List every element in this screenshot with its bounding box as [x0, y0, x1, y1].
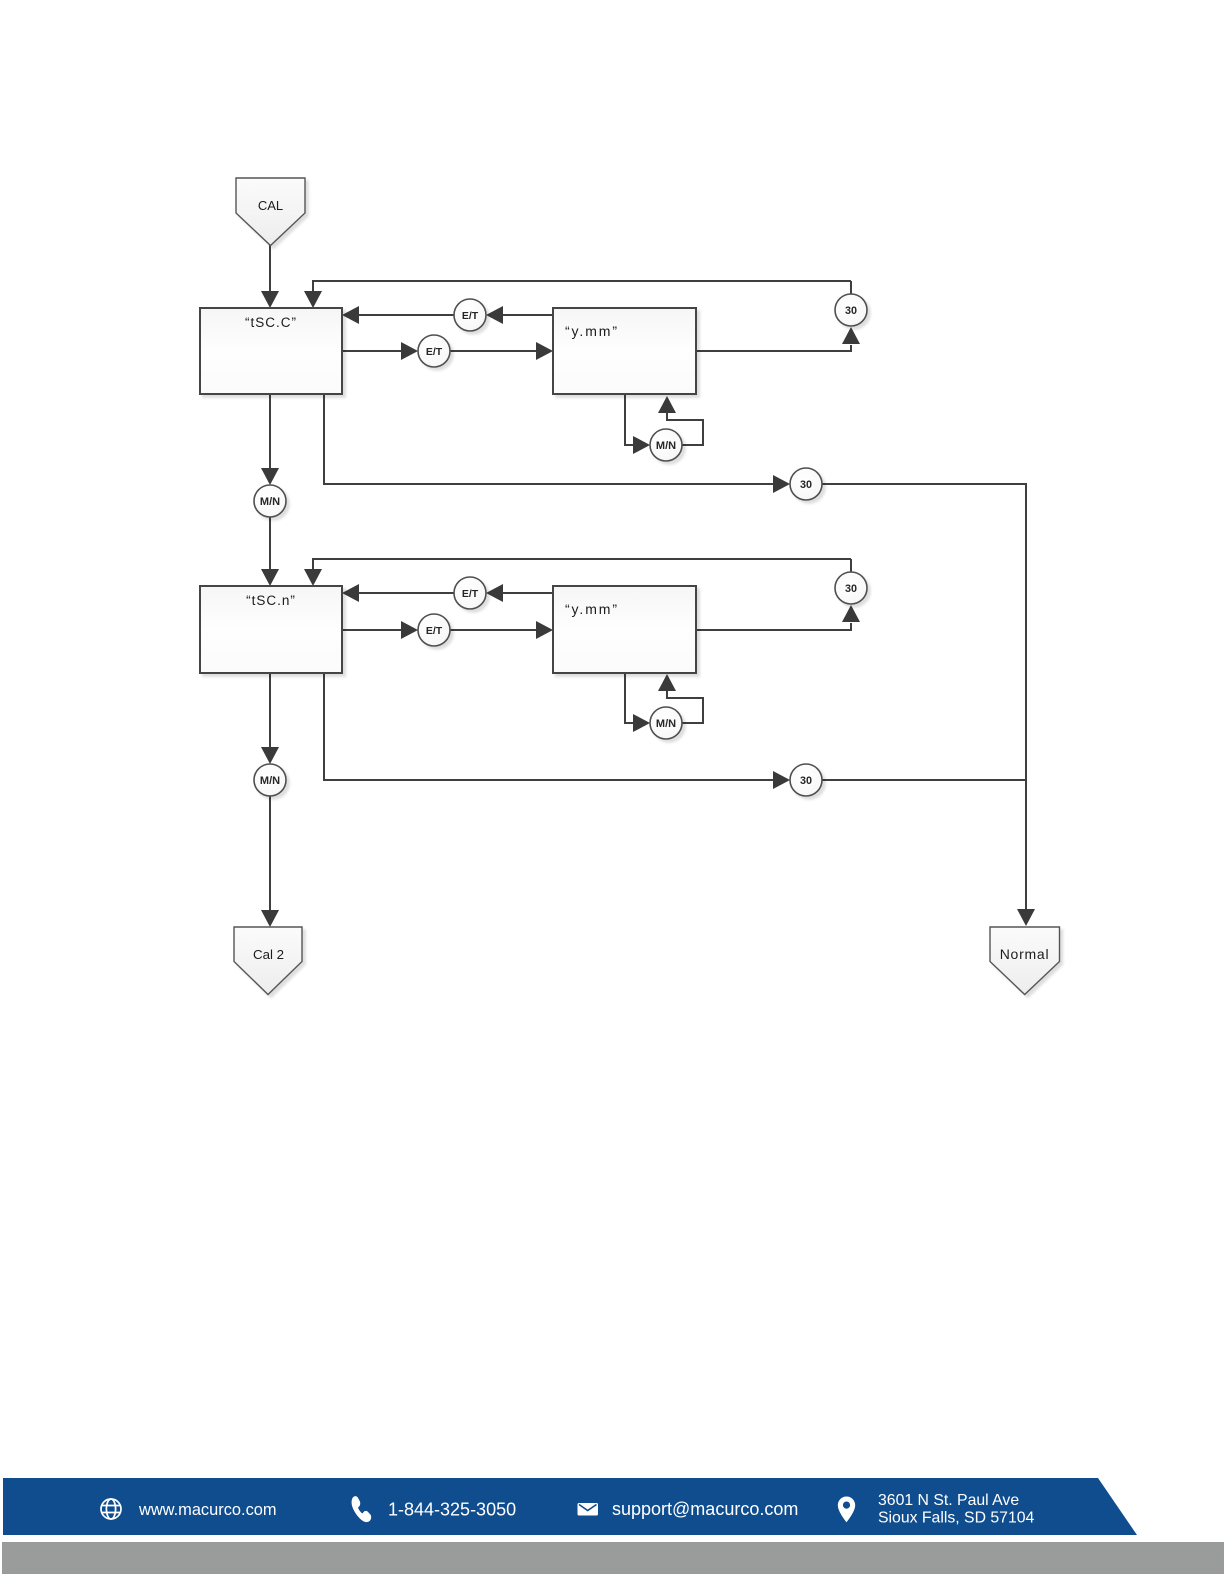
- arrowhead into E/T top left: [486, 306, 503, 324]
- wire tSC.C to E/T bottom: [342, 350, 402, 352]
- svg-text:30: 30: [800, 775, 812, 787]
- arrowhead up into y.mm bottom: [658, 396, 676, 413]
- svg-text:M/N: M/N: [260, 496, 280, 508]
- circle M/N below tSC.C: [254, 485, 286, 517]
- circle E/T row1 top: [454, 299, 486, 331]
- wire M/N loop return: [667, 412, 703, 445]
- arrowhead up into 30 circle row1: [842, 327, 860, 344]
- globe icon: [101, 1499, 121, 1519]
- arrowhead into 30 escape2: [773, 771, 790, 789]
- wire tSC.n escape down: [324, 673, 774, 780]
- svg-text:E/T: E/T: [462, 310, 479, 322]
- arrowhead into 30 escape1: [773, 475, 790, 493]
- wire y.mm2 to E/T top2: [502, 592, 553, 594]
- process box y.mm row2: [553, 586, 696, 673]
- arrowhead into tSC.n from feedback2: [304, 569, 322, 586]
- circle E/T row2 top: [454, 577, 486, 609]
- svg-text:30: 30: [800, 479, 812, 491]
- wire feedback2 entry vertical: [312, 559, 314, 570]
- arrowhead into M/N loop2: [633, 714, 650, 732]
- wire y.mm to E/T top: [502, 314, 553, 316]
- arrowhead into Normal: [1017, 909, 1035, 926]
- wire feedback2 horizontal: [312, 558, 851, 560]
- svg-text:30: 30: [845, 583, 857, 595]
- arrowhead into M/N below tSC.C: [261, 468, 279, 485]
- location pin icon: [838, 1497, 855, 1523]
- arrowhead into tSC.C right: [342, 306, 359, 324]
- wire feedback1 entry vertical: [312, 281, 314, 292]
- svg-text:E/T: E/T: [426, 346, 443, 358]
- wire M/N loop2 return: [667, 690, 703, 723]
- arrowhead up into 30 circle row2: [842, 605, 860, 622]
- wire feedback1 horizontal: [312, 280, 851, 282]
- wire 30 circle2 to long vertical: [822, 779, 1026, 781]
- wire M/N2 down to Cal 2: [269, 796, 271, 910]
- svg-text:CAL: CAL: [258, 198, 283, 213]
- wire tSC.n to E/T bottom2: [342, 629, 402, 631]
- circle 30 row1 top: [835, 294, 867, 326]
- arrowhead into tSC.n right: [342, 584, 359, 602]
- wire y.mm2 exit up to 30 circle: [696, 623, 851, 630]
- arrowhead up into y.mm2 bottom: [658, 674, 676, 691]
- off-page connector Normal: [990, 927, 1060, 995]
- svg-text:M/N: M/N: [656, 718, 676, 730]
- arrowhead into tSC.n top: [261, 569, 279, 586]
- wire tSC.n down to M/N2: [269, 673, 271, 748]
- circle M/N loop row1: [650, 429, 682, 461]
- arrowhead into Cal 2: [261, 910, 279, 927]
- svg-text:M/N: M/N: [260, 775, 280, 787]
- wire E/T bottom to y.mm: [450, 350, 537, 352]
- svg-text:Cal 2: Cal 2: [253, 947, 284, 962]
- svg-text:E/T: E/T: [462, 588, 479, 600]
- wire E/T top to tSC.C: [358, 314, 454, 316]
- circle E/T row2 bottom: [418, 614, 450, 646]
- svg-text:Normal: Normal: [1000, 946, 1050, 962]
- circle M/N below tSC.n: [254, 764, 286, 796]
- circle M/N loop row2: [650, 707, 682, 739]
- arrowhead into E/T bottom2: [401, 621, 418, 639]
- svg-text:30: 30: [845, 305, 857, 317]
- wire feedback1 into 30 circle: [850, 281, 852, 294]
- arrowhead into M/N loop1: [633, 436, 650, 454]
- svg-text:E/T: E/T: [426, 625, 443, 637]
- svg-text:Sioux Falls, SD 57104: Sioux Falls, SD 57104: [878, 1510, 1035, 1527]
- svg-text:“tSC.C”: “tSC.C”: [245, 315, 297, 330]
- wire E/T top2 to tSC.n: [358, 592, 454, 594]
- wire CAL to tSC.C: [269, 245, 271, 292]
- wire y.mm exit up to 30 circle: [696, 345, 851, 351]
- svg-text:3601 N St. Paul Ave: 3601 N St. Paul Ave: [878, 1492, 1019, 1509]
- circle 30 escape row1: [790, 468, 822, 500]
- wire tSC.C escape down: [324, 394, 774, 484]
- arrowhead into tSC.C from CAL: [261, 291, 279, 308]
- svg-text:“y.mm”: “y.mm”: [565, 323, 619, 339]
- wire y.mm bottom loop down: [625, 394, 634, 445]
- wire y.mm2 bottom loop down: [625, 673, 634, 723]
- svg-text:1-844-325-3050: 1-844-325-3050: [388, 1500, 516, 1520]
- circle E/T row1 bottom: [418, 335, 450, 367]
- arrowhead into tSC.C from feedback1: [304, 291, 322, 308]
- arrowhead into y.mm2 left: [536, 621, 553, 639]
- arrowhead into E/T bottom: [401, 342, 418, 360]
- process box tSC.n: [200, 586, 342, 673]
- circle 30 escape row2: [790, 764, 822, 796]
- wire E/T bottom2 to y.mm2: [450, 629, 537, 631]
- phone icon: [352, 1496, 372, 1522]
- process box y.mm row1: [553, 308, 696, 394]
- svg-text:“tSC.n”: “tSC.n”: [246, 593, 296, 608]
- svg-text:M/N: M/N: [656, 440, 676, 452]
- process box tSC.C: [200, 308, 342, 394]
- svg-text:www.macurco.com: www.macurco.com: [138, 1501, 277, 1519]
- arrowhead into y.mm left: [536, 342, 553, 360]
- wire M/N down to tSC.n: [269, 517, 271, 570]
- wire tSC.C down to M/N: [269, 394, 271, 468]
- arrowhead into M/N2 below tSC.n: [261, 747, 279, 764]
- arrowhead into E/T top2 left: [486, 584, 503, 602]
- svg-text:“y.mm”: “y.mm”: [565, 601, 619, 617]
- footer gray bar: [2, 1542, 1224, 1574]
- envelope icon: [578, 1503, 599, 1516]
- footer blue banner: [3, 1478, 1137, 1535]
- wire 30 circle to long vertical: [822, 484, 1026, 909]
- wire feedback2 into 30 circle: [850, 559, 852, 572]
- off-page connector CAL: [236, 178, 305, 246]
- svg-text:support@macurco.com: support@macurco.com: [612, 1499, 798, 1519]
- circle 30 row2 top: [835, 572, 867, 604]
- off-page connector Cal 2: [234, 927, 302, 995]
